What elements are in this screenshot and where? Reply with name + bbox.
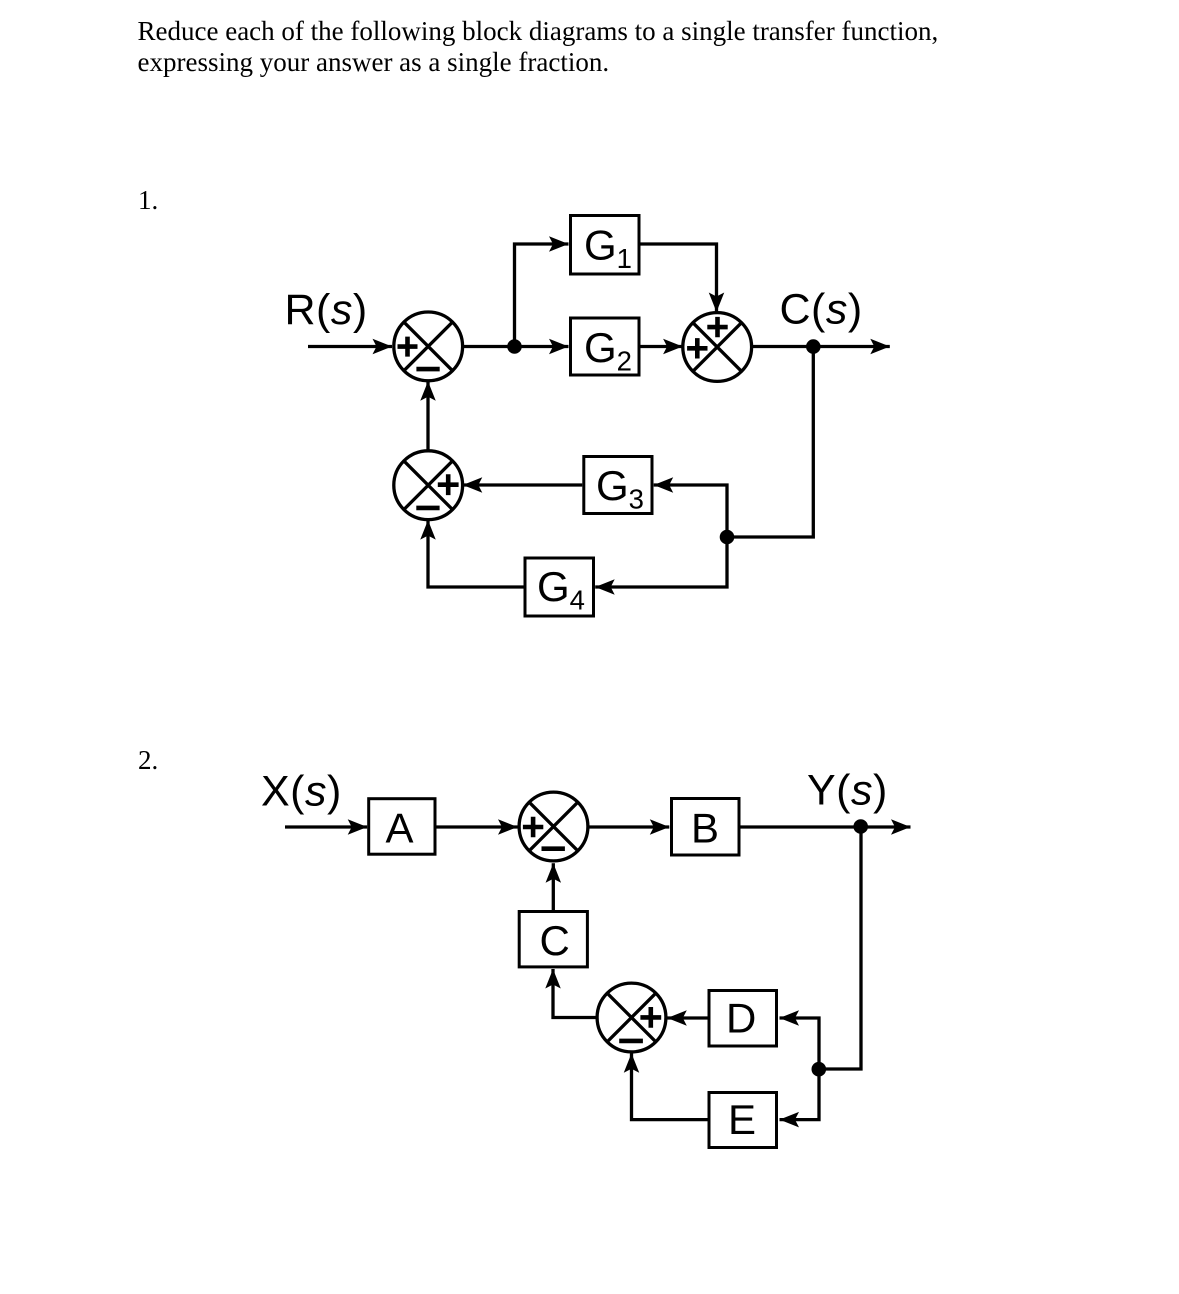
svg-text:D: D (726, 995, 756, 1042)
svg-text:G3: G3 (596, 462, 644, 515)
svg-text:G4: G4 (537, 563, 585, 616)
svg-text:C(s): C(s) (780, 286, 863, 334)
svg-text:R(s): R(s) (285, 286, 368, 334)
svg-text:G2: G2 (584, 324, 632, 377)
svg-text:E: E (728, 1096, 756, 1143)
svg-text:G1: G1 (584, 222, 632, 275)
svg-text:A: A (386, 804, 414, 851)
svg-text:Y(s): Y(s) (807, 767, 888, 815)
svg-text:C: C (540, 917, 570, 964)
svg-text:X(s): X(s) (261, 768, 342, 816)
svg-text:B: B (691, 804, 719, 851)
